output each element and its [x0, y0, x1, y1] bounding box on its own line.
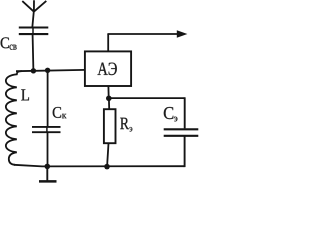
wire node C to Ce — [109, 97, 185, 99]
node D junction dot — [104, 164, 110, 170]
capacitor C2 (Ck) plates — [32, 127, 61, 132]
wire Ce upper — [184, 97, 186, 128]
node C junction dot — [106, 96, 112, 102]
capacitor C1 (Csv) plates — [19, 28, 49, 35]
wire output arrow horizontal — [107, 33, 177, 35]
antenna — [22, 0, 46, 27]
wire top rail to AE — [16, 70, 85, 71]
ground — [39, 167, 57, 182]
wire node C to Re — [108, 98, 110, 109]
label Re-sub — [130, 127, 133, 131]
wire AE top to arrow corner — [107, 34, 109, 51]
block U1 active element (AE) rectangle — [85, 51, 131, 86]
capacitor C3 (Ce) plates — [164, 129, 199, 136]
wire Ce lower — [184, 136, 186, 167]
wire Ck branch lower — [47, 132, 49, 166]
inductor L — [6, 71, 22, 165]
wire through Ck (scan artifact) — [46, 127, 48, 132]
wire Ck branch upper — [47, 70, 49, 126]
node B junction dot — [45, 68, 50, 73]
wire Re bottom to rail — [107, 143, 108, 166]
wire AE bottom to node C — [107, 86, 109, 98]
label Ck-sub — [62, 114, 66, 118]
wire Csv to junction — [32, 35, 35, 71]
node A junction dot — [31, 68, 36, 73]
label Ce-C — [164, 107, 174, 119]
label Csv-C — [1, 37, 9, 48]
output arrowhead — [177, 30, 188, 38]
resistor R1 (Re) body — [104, 109, 116, 143]
wire through Csv (scan artifact) — [32, 28, 34, 35]
node ground junction dot — [45, 164, 51, 170]
label Ce-sub — [174, 117, 177, 122]
wire bottom rail — [14, 165, 185, 167]
label L — [21, 89, 29, 100]
label Ck-C — [53, 107, 61, 118]
label Re-R — [120, 118, 129, 129]
label Csv-sub — [10, 45, 17, 50]
label AE — [98, 63, 117, 76]
